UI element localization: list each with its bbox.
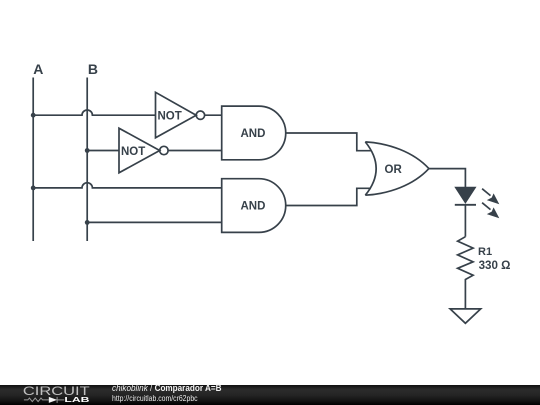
svg-text:NOT: NOT bbox=[158, 111, 182, 123]
svg-text:330 Ω: 330 Ω bbox=[479, 259, 511, 272]
svg-text:A: A bbox=[33, 61, 43, 77]
svg-text:NOT: NOT bbox=[121, 146, 145, 158]
svg-text:R1: R1 bbox=[478, 246, 492, 258]
svg-text:B: B bbox=[88, 61, 98, 77]
svg-text:LAB: LAB bbox=[64, 395, 90, 404]
svg-text:OR: OR bbox=[385, 164, 403, 176]
svg-text:AND: AND bbox=[241, 201, 266, 213]
svg-text:AND: AND bbox=[241, 128, 266, 140]
